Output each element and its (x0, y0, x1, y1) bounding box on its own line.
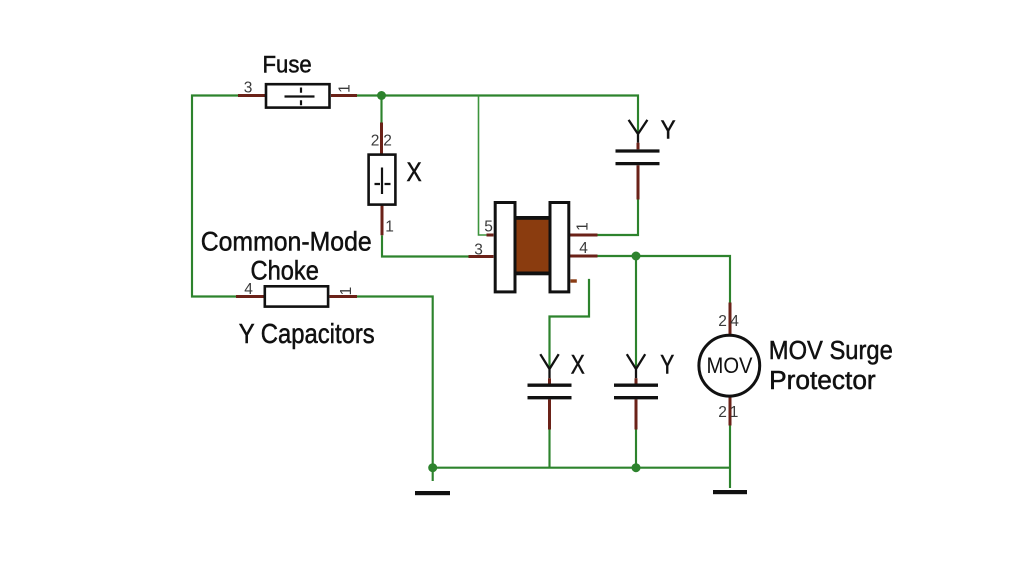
svg-text:1: 1 (575, 222, 592, 231)
wire W12 bottom Y capacitor to ground rail (635, 430, 637, 468)
ground GND1 left (415, 491, 450, 495)
svg-text:2: 2 (371, 133, 380, 150)
wire W15 left ground stub (432, 468, 434, 481)
wire W5 junction down to X cap (380, 96, 382, 123)
svg-text:1: 1 (385, 219, 394, 236)
svg-text:Y: Y (660, 350, 674, 380)
ground GND2 right (713, 490, 747, 494)
svg-text:2: 2 (383, 133, 392, 150)
svg-text:1: 1 (730, 404, 739, 421)
capacitor C3 Y class bottom (614, 354, 658, 429)
svg-text:MOV Surge: MOV Surge (769, 337, 893, 365)
wire W10 choke pin 2 route to bottom X capacitor (550, 280, 590, 367)
svg-text:X: X (407, 157, 422, 187)
svg-text:4: 4 (244, 281, 253, 298)
svg-text:X: X (571, 350, 585, 380)
svg-text:3: 3 (474, 242, 483, 259)
svg-text:Common-Mode: Common-Mode (201, 226, 372, 256)
capacitor C2 X class bottom (528, 354, 572, 429)
varistor RV1 MOV (699, 303, 760, 426)
svg-text:5: 5 (484, 219, 493, 236)
svg-text:Choke: Choke (251, 256, 319, 286)
wire W14 choke-res output down to ground rail (357, 297, 433, 468)
capacitor X1 (X class, top) (369, 123, 396, 236)
wire W8 choke pin 4 to MOV (598, 256, 731, 303)
node junction A fuse output (377, 91, 386, 100)
wire W4 drop to choke pin 5 (479, 96, 487, 236)
svg-text:2: 2 (718, 404, 727, 421)
fuse F1 (238, 84, 357, 107)
capacitor C1 Y class top right (616, 120, 660, 200)
wire W11 bottom X capacitor to ground rail (548, 430, 550, 468)
svg-text:MOV: MOV (707, 353, 753, 378)
wire W16 MOV bottom to ground (729, 426, 731, 489)
inductor L1 (choke-resistor box) (236, 286, 357, 306)
wire W3 top rail to Y capacitor (382, 96, 638, 132)
wire W13 ground rail (433, 467, 730, 469)
transformer T1 common-mode choke (469, 203, 598, 292)
wire W2 fuse output to junction (357, 94, 383, 96)
svg-text:1: 1 (337, 84, 354, 93)
node junction D ground rail Y cap (632, 463, 641, 472)
wire W9 branch down to bottom Y capacitor (635, 256, 637, 367)
wire W7 choke pin 1 to top Y capacitor (598, 200, 639, 236)
svg-text:2: 2 (718, 313, 727, 330)
svg-text:Fuse: Fuse (263, 52, 312, 79)
svg-text:Y Capacitors: Y Capacitors (239, 318, 375, 349)
node junction B choke pin4 (632, 252, 641, 261)
wire W6 X cap bottom to choke pin 3 (382, 235, 469, 256)
svg-text:4: 4 (579, 240, 588, 257)
svg-text:Protector: Protector (769, 367, 876, 395)
svg-text:Y: Y (661, 115, 676, 145)
svg-text:3: 3 (244, 80, 253, 97)
svg-text:4: 4 (730, 313, 739, 330)
wire W1 line-in top left (192, 96, 238, 297)
svg-text:1: 1 (338, 287, 355, 296)
node junction C ground rail left (428, 463, 437, 472)
